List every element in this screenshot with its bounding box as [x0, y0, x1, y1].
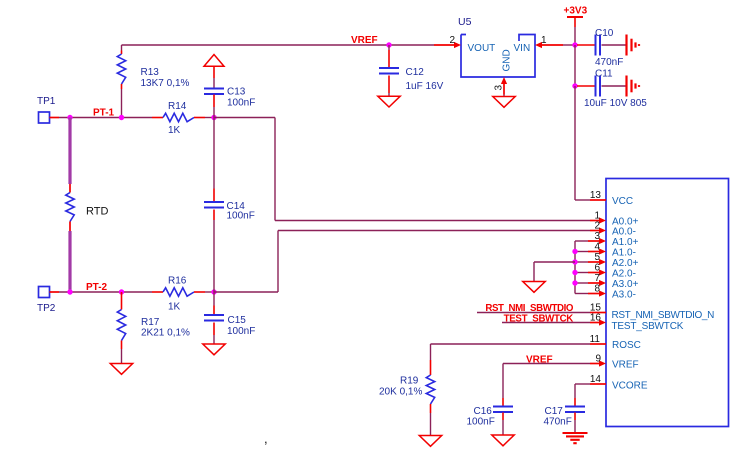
svg-text:C10: C10: [595, 28, 614, 39]
TP1 pin: [50, 117, 60, 119]
svg-text:1K: 1K: [168, 125, 181, 136]
svg-text:C15: C15: [228, 315, 247, 326]
chassis ground C10: [627, 35, 640, 56]
junction +3V3/C10: [572, 42, 577, 47]
svg-text:A2.0-: A2.0-: [612, 269, 636, 280]
wire PT-2 net to pin 2 (bend): [214, 291, 278, 293]
wire C13 to PT-1 row: [213, 107, 215, 118]
C13 bottom pin: [213, 95, 215, 108]
wire PT-2 row to R16: [122, 291, 153, 293]
wire +3V3 to C10 junction: [574, 27, 576, 45]
svg-text:R13: R13: [141, 67, 160, 78]
junction bus pin 4: [572, 249, 577, 254]
svg-text:R19: R19: [400, 376, 419, 387]
resistor R13: [117, 45, 125, 118]
svg-text:100nF: 100nF: [227, 211, 255, 222]
svg-text:16: 16: [590, 313, 602, 324]
svg-text:TEST_SBWTCK: TEST_SBWTCK: [612, 321, 684, 332]
svg-text:,: ,: [264, 431, 268, 446]
junction PT-2/C15: [211, 289, 216, 294]
svg-text:VCC: VCC: [612, 196, 633, 207]
wire VCORE to C17: [575, 383, 590, 385]
svg-text:11: 11: [590, 334, 601, 345]
wire +3V3 column to VCC pin 13: [574, 86, 576, 200]
svg-text:ROSC: ROSC: [612, 340, 641, 351]
svg-text:VREF: VREF: [351, 35, 378, 46]
svg-text:3: 3: [494, 85, 505, 91]
svg-text:470nF: 470nF: [595, 57, 623, 68]
svg-text:470nF: 470nF: [544, 417, 572, 428]
wire C column PT-1 to C14: [213, 118, 215, 189]
resistor RTD: [66, 184, 74, 231]
svg-text:5: 5: [594, 252, 600, 263]
U5 pin 3: [503, 83, 505, 95]
wire VREF down to C16: [502, 364, 504, 399]
capacitor C17: [565, 398, 585, 420]
svg-text:R14: R14: [168, 101, 187, 112]
svg-text:100nF: 100nF: [227, 97, 255, 108]
capacitor C12: [379, 45, 399, 93]
IC pin 1: [590, 220, 600, 222]
svg-text:13K7 0,1%: 13K7 0,1%: [141, 78, 190, 89]
svg-text:9: 9: [595, 354, 601, 365]
IC pin 14: [590, 383, 606, 385]
wire C15 to ground: [213, 335, 215, 344]
TP2 pin: [50, 291, 60, 293]
wire VREF top run from R13 to U5: [122, 44, 435, 46]
svg-text:R16: R16: [168, 276, 187, 287]
wire bus to pin 5: [575, 261, 588, 263]
test point TP2: [39, 287, 50, 298]
svg-text:8: 8: [594, 284, 600, 295]
svg-text:TP2: TP2: [37, 303, 56, 314]
junction bus pin 6: [572, 270, 577, 275]
power +3V3 rail above C13: [204, 55, 224, 67]
svg-text:A0.0-: A0.0-: [612, 227, 636, 238]
IC box (MCU): [606, 179, 729, 427]
junction PT-2/R17: [119, 289, 124, 294]
svg-text:1uF 16V: 1uF 16V: [406, 81, 444, 92]
bus wire pins 3-8: [574, 241, 576, 294]
resistor R16: [152, 288, 205, 296]
svg-text:C16: C16: [474, 406, 493, 417]
wire TP1 to PT-1 row: [59, 117, 122, 119]
IC pin 9: [590, 363, 600, 365]
svg-text:A1.0-: A1.0-: [612, 248, 636, 259]
svg-text:A1.0+: A1.0+: [612, 237, 639, 248]
IC pin 16: [590, 322, 600, 324]
svg-text:U5: U5: [458, 16, 472, 28]
wire U5 pin1 to +3V3 column: [563, 44, 575, 46]
svg-text:1: 1: [541, 35, 547, 46]
svg-text:RTD: RTD: [86, 206, 108, 218]
wire C17 to earth ground: [574, 420, 576, 433]
svg-text:A3.0-: A3.0-: [612, 290, 636, 301]
IC pin 13 VCC: [590, 199, 606, 201]
resistor R19: [426, 344, 434, 436]
junction PT-1/R13: [119, 115, 124, 120]
wire RST_NMI_SBWTDIO to pin 15: [477, 312, 590, 314]
wire C16 to ground: [502, 420, 504, 435]
svg-text:14: 14: [590, 374, 602, 385]
svg-text:VREF: VREF: [612, 360, 639, 371]
IC pin 6: [588, 272, 600, 274]
svg-text:GND: GND: [502, 49, 513, 71]
junction bus pin 5: [572, 259, 577, 264]
svg-text:C17: C17: [545, 406, 564, 417]
wire PT-1 row R13 junction to R14: [122, 117, 153, 119]
svg-text:10uF 10V 805: 10uF 10V 805: [584, 98, 647, 109]
capacitor C11: [577, 76, 626, 97]
ground C15: [203, 344, 225, 355]
svg-text:3: 3: [594, 231, 600, 242]
earth ground C17: [563, 433, 588, 443]
svg-text:C12: C12: [406, 67, 425, 78]
svg-text:+3V3: +3V3: [564, 6, 588, 17]
IC pin 5: [588, 261, 600, 263]
wire PT-1 net to pin 1 (bend): [214, 117, 275, 119]
svg-text:VCORE: VCORE: [612, 380, 648, 391]
IC pin 2: [590, 230, 600, 232]
capacitor C16: [493, 398, 513, 420]
svg-text:13: 13: [590, 190, 602, 201]
IC pin 15: [590, 312, 606, 314]
svg-text:PT-1: PT-1: [93, 108, 115, 119]
junction PT-2/RTD: [67, 289, 72, 294]
ground U5: [493, 97, 515, 108]
wire bus to ground stub: [534, 261, 575, 263]
op-amp/regulator U5: [461, 35, 535, 78]
wire TP2 to PT-2 row: [59, 291, 122, 293]
svg-text:TP1: TP1: [37, 96, 56, 107]
wire C12 to ground: [388, 93, 390, 96]
svg-text:VOUT: VOUT: [468, 43, 496, 54]
svg-text:A3.0+: A3.0+: [612, 279, 639, 290]
svg-text:R17: R17: [141, 317, 160, 328]
wire U5 GND to ground: [503, 95, 505, 97]
chassis ground C11: [627, 76, 640, 97]
wire bus to pin 6: [575, 272, 588, 274]
resistor R17: [117, 292, 125, 364]
capacitor C15: [204, 306, 224, 336]
svg-text:C13: C13: [227, 87, 246, 98]
junction PT-1/RTD: [67, 115, 72, 120]
wire TEST_SBWTCK to pin 16: [502, 322, 590, 324]
svg-text:20K 0,1%: 20K 0,1%: [379, 387, 422, 398]
ground R19: [419, 436, 441, 447]
svg-text:100nF: 100nF: [467, 417, 495, 428]
svg-text:2: 2: [449, 35, 455, 46]
wire +3V3 column C10 to C11: [574, 45, 576, 86]
test point TP1: [39, 112, 50, 123]
wire bus to pin 7: [575, 282, 588, 284]
wire VREF to pin 9: [503, 363, 590, 365]
junction +3V3/C11: [572, 83, 577, 88]
wire R14 to C column: [205, 117, 214, 119]
svg-text:A2.0+: A2.0+: [612, 258, 639, 269]
IC pin 8: [588, 293, 600, 295]
IC pin 3: [588, 240, 600, 242]
wire ROSC to R19: [431, 343, 591, 345]
capacitor C14: [204, 189, 224, 221]
svg-text:1K: 1K: [168, 302, 181, 313]
junction PT-1/C13: [211, 115, 216, 120]
IC pin 4: [588, 251, 600, 253]
ground C16: [492, 435, 514, 446]
capacitor C10: [577, 35, 626, 56]
capacitor C13: [204, 89, 224, 95]
wire C14 to PT-2 row: [213, 220, 215, 292]
thick RTD net trace upper: [68, 118, 71, 185]
svg-text:4: 4: [594, 242, 600, 253]
thick RTD net trace lower: [68, 231, 71, 292]
power +3V3 symbol: [567, 16, 583, 18]
IC pin 7: [588, 282, 600, 284]
svg-text:7: 7: [594, 273, 600, 284]
svg-text:2K21 0,1%: 2K21 0,1%: [141, 328, 190, 339]
wire R16 to C column: [205, 291, 214, 293]
U5 pin 2: [434, 44, 455, 46]
svg-text:100nF: 100nF: [227, 326, 255, 337]
junction bus pin 7: [572, 280, 577, 285]
svg-text:PT-2: PT-2: [86, 282, 108, 293]
resistor R14: [152, 113, 205, 121]
wire bus to pin 4: [575, 251, 588, 253]
ground R17: [110, 364, 132, 375]
svg-text:2: 2: [594, 221, 600, 232]
wire power to C13: [213, 66, 215, 78]
svg-text:RST_NMI_SBWTDIO_N: RST_NMI_SBWTDIO_N: [612, 310, 715, 321]
svg-text:VIN: VIN: [514, 43, 531, 54]
svg-text:6: 6: [594, 263, 600, 274]
ground analog bus: [523, 282, 545, 293]
wire C column PT-2 to C15: [213, 292, 215, 306]
ground C12: [378, 96, 400, 107]
svg-text:C11: C11: [595, 69, 613, 80]
junction VREF/C12: [386, 42, 391, 47]
U5 pin 1: [541, 44, 563, 46]
IC pin 11: [590, 343, 606, 345]
